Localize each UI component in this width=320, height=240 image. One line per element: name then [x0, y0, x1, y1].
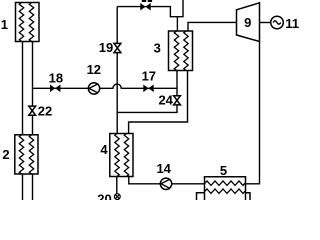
svg-text:12: 12 [87, 62, 101, 77]
wire: right pipe HX1 to HX2 [32, 42, 34, 135]
wire: left pipe below HX2 [22, 174, 24, 200]
valve 23 at top edge (cut off by image border) [140, 0, 152, 11]
svg-text:2: 2 [2, 147, 9, 162]
wire: HX3 right tap down and left into HX4 top [129, 71, 188, 134]
wire: turbine exhaust down right side into HX5 [246, 42, 260, 184]
svg-text:11: 11 [285, 16, 299, 31]
turbine 9 [237, 3, 260, 42]
wire: left pipe HX1 to HX2 [22, 42, 24, 135]
valve 22 [29, 106, 36, 115]
pump 12 [88, 83, 99, 94]
valve 20 [114, 194, 120, 200]
heat exchanger 4 [110, 134, 133, 177]
heat exchanger 2 [15, 135, 38, 174]
svg-text:1: 1 [1, 17, 8, 32]
wire: steam line HX3 to turbine [188, 22, 237, 31]
wire: turbine to generator link [260, 22, 271, 24]
tank below heat exchanger 5 [197, 193, 251, 200]
wire: horizontal line from left column through valve 18, pump 12, valve 17 with hop over vertical main line [33, 84, 178, 88]
svg-text:17: 17 [142, 69, 156, 84]
heat exchanger 3 [169, 31, 193, 71]
svg-text:24: 24 [158, 93, 173, 108]
svg-text:19: 19 [99, 40, 113, 55]
valve 17 [143, 85, 153, 93]
wire: HX4 bottom left tap to valve 20 [116, 177, 118, 194]
wire: right pipe below HX2 [32, 174, 34, 200]
svg-text:9: 9 [244, 15, 251, 30]
wire: HX4 bottom right tap through pump 14 to HX5 [129, 177, 205, 184]
svg-text:3: 3 [154, 41, 161, 56]
svg-text:22: 22 [38, 104, 52, 119]
generator 11 [271, 16, 284, 29]
pump 14 [160, 178, 171, 189]
wire: main vertical line through valve 19 down to HX4 [116, 7, 118, 134]
svg-text:18: 18 [49, 70, 63, 85]
wire: top line with valve, step to pipe exiting top edge [117, 0, 183, 17]
wire: HX3 left tap down through valve 24 to branch back to main line [117, 71, 177, 113]
valve 19 [114, 43, 121, 52]
heat exchanger 1 [16, 3, 40, 42]
heat exchanger 5 [205, 177, 246, 200]
valve 18 [50, 85, 60, 93]
svg-text:14: 14 [156, 161, 171, 176]
svg-text:4: 4 [100, 142, 108, 157]
svg-text:20: 20 [97, 192, 111, 200]
wire: drop from top step into HX3 [176, 17, 178, 31]
svg-text:5: 5 [220, 163, 227, 178]
valve 24 [174, 96, 181, 105]
